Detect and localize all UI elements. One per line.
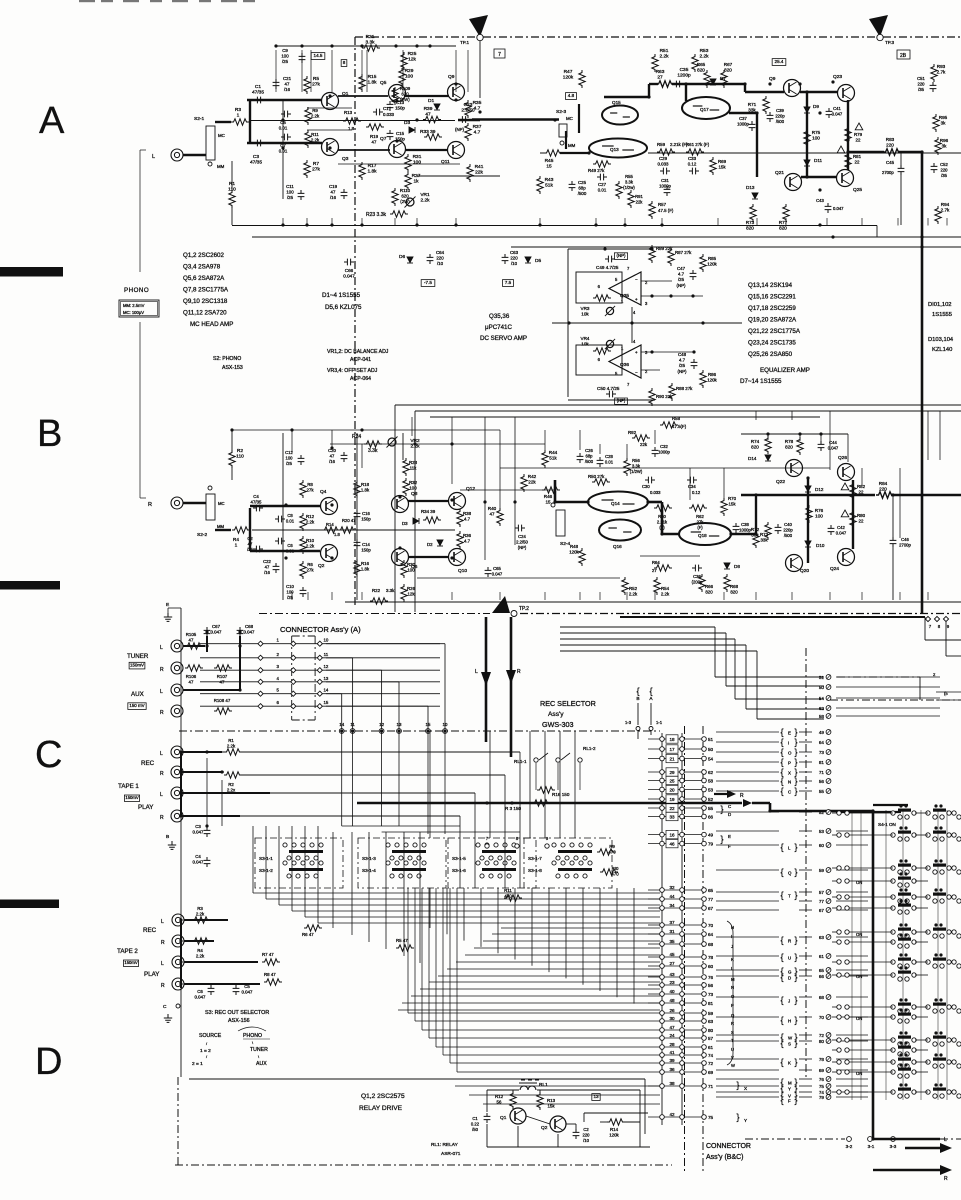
svg-text:KZL140: KZL140 bbox=[932, 347, 952, 353]
resistor R52 2.2k bbox=[622, 577, 628, 595]
resistor R61 27k(F) bbox=[686, 149, 704, 155]
resistor R62 27k bbox=[689, 505, 707, 511]
connector pin row 23/56 bbox=[648, 984, 704, 986]
resistor R76 100 bbox=[806, 505, 812, 523]
svg-text:49: 49 bbox=[819, 730, 825, 735]
svg-text:PHONO: PHONO bbox=[243, 1033, 262, 1039]
svg-text:P: P bbox=[731, 1003, 734, 1008]
jack TUNER L bbox=[171, 640, 183, 652]
capacitor C5 0.01 bbox=[281, 111, 291, 118]
svg-text:55: 55 bbox=[819, 789, 825, 794]
lower dash-dot C border bbox=[179, 730, 660, 732]
svg-text:41: 41 bbox=[669, 1050, 675, 1055]
pins 7 8 9 right bbox=[925, 616, 930, 621]
svg-text:73: 73 bbox=[819, 750, 825, 755]
svg-text:R64: R64 bbox=[652, 560, 660, 565]
svg-text:61: 61 bbox=[708, 1045, 714, 1050]
svg-text:(NP): (NP) bbox=[616, 253, 626, 258]
dual fet Q14 bbox=[588, 492, 648, 513]
svg-text:43: 43 bbox=[669, 972, 675, 977]
svg-text:Y: Y bbox=[744, 1118, 747, 1123]
relay drive nested wires bbox=[455, 1085, 660, 1087]
transistor Q10 bbox=[449, 549, 466, 566]
svg-text:N: N bbox=[731, 985, 734, 990]
long rail A bottom 3 bbox=[511, 246, 961, 248]
capacitor C5C 0.047 bbox=[233, 985, 240, 995]
svg-text:G: G bbox=[788, 970, 792, 975]
warning R79 22 bbox=[855, 123, 863, 130]
transistor Q21 bbox=[785, 174, 802, 191]
svg-text:46: 46 bbox=[669, 841, 675, 846]
transistor Q24 bbox=[838, 549, 855, 566]
ground B mid bbox=[168, 841, 176, 849]
svg-text:}: } bbox=[736, 1080, 739, 1090]
staircase verticals from connector pins bbox=[341, 731, 343, 826]
boxed voltage 14.5 bbox=[311, 53, 325, 60]
svg-text:C: C bbox=[35, 734, 62, 776]
svg-text:67: 67 bbox=[708, 906, 714, 911]
transistor Q6 bbox=[392, 549, 409, 566]
svg-text:69: 69 bbox=[819, 1068, 825, 1073]
B verticals to rails bbox=[291, 592, 293, 600]
svg-text:B: B bbox=[37, 413, 62, 455]
svg-text:13: 13 bbox=[397, 722, 402, 727]
svg-text:X: X bbox=[744, 1086, 747, 1091]
svg-text:75: 75 bbox=[819, 1084, 825, 1089]
wires small box right bbox=[936, 691, 961, 693]
right column R93 2.7k bbox=[931, 64, 937, 82]
wire A mesh horizontals bbox=[307, 107, 352, 109]
resistor R7C 47 bbox=[262, 959, 280, 965]
bold tape1 jack bus bbox=[180, 752, 182, 816]
switch S2-1 bbox=[206, 126, 215, 160]
svg-text:K: K bbox=[731, 957, 734, 962]
svg-text:2700p: 2700p bbox=[882, 170, 894, 175]
svg-text:23: 23 bbox=[669, 980, 675, 985]
junction dots B bbox=[284, 503, 287, 506]
svg-text:R29100: R29100 bbox=[405, 68, 414, 80]
svg-text:R66820: R66820 bbox=[705, 584, 714, 595]
resistor R58 47.5F bbox=[660, 422, 678, 428]
svg-text:60: 60 bbox=[708, 964, 714, 969]
resistor R59 2.21k(F) bbox=[657, 149, 675, 155]
svg-text:14.5: 14.5 bbox=[314, 53, 323, 58]
svg-text:R2612k: R2612k bbox=[407, 586, 416, 597]
bold rail Q21-Q25 bbox=[801, 176, 837, 178]
svg-text:C: C bbox=[163, 1004, 167, 1010]
svg-text:R4222k: R4222k bbox=[528, 474, 537, 485]
connector pin row 40/73 bbox=[648, 993, 704, 995]
svg-text:10: 10 bbox=[323, 638, 328, 643]
transistor Q11 bbox=[448, 142, 465, 159]
svg-text:L: L bbox=[161, 961, 164, 967]
right pin column dash-dot verticals bbox=[805, 648, 807, 1080]
svg-text:Q8: Q8 bbox=[411, 491, 418, 497]
svg-text:58: 58 bbox=[708, 778, 714, 783]
capacitor C12 100/25 bbox=[298, 455, 305, 465]
svg-text:14: 14 bbox=[339, 722, 344, 727]
resistor R14 1.8 bbox=[322, 527, 340, 533]
svg-text:77: 77 bbox=[819, 899, 825, 904]
svg-text:REC: REC bbox=[141, 760, 155, 767]
transistor Q5 bbox=[389, 85, 406, 102]
svg-text:0.12: 0.12 bbox=[692, 490, 701, 495]
svg-text:77: 77 bbox=[708, 897, 714, 902]
svg-text:}: } bbox=[794, 737, 797, 747]
diode D9 bbox=[804, 107, 810, 113]
svg-text:S2-4: S2-4 bbox=[560, 541, 570, 547]
svg-text:15: 15 bbox=[323, 700, 328, 705]
svg-text:Q25: Q25 bbox=[853, 187, 862, 193]
jack PLAY L tape2 bbox=[172, 956, 184, 968]
svg-text:R: R bbox=[788, 939, 791, 944]
svg-text:L: L bbox=[152, 154, 155, 160]
resistor R48 120k bbox=[579, 548, 585, 566]
border C/D bottom dash-dot bbox=[175, 1164, 672, 1166]
svg-text:Q19,20 2SA872A: Q19,20 2SA872A bbox=[748, 317, 797, 324]
connector pin row 31/64 bbox=[648, 933, 704, 935]
svg-text:R83220: R83220 bbox=[886, 137, 895, 148]
bundle horizontals lower rows bbox=[408, 1012, 648, 1014]
diode D5 bbox=[525, 257, 531, 263]
section B frame line 2 bbox=[415, 410, 961, 412]
svg-text:52: 52 bbox=[708, 797, 714, 802]
transistor Q19 bbox=[784, 80, 801, 97]
svg-text:L: L bbox=[475, 669, 478, 675]
capacitor C35 1200p bbox=[673, 81, 683, 88]
svg-text:VR3,4: OFF-SET ADJ: VR3,4: OFF-SET ADJ bbox=[327, 368, 378, 374]
svg-text:Q7: Q7 bbox=[380, 136, 387, 142]
test point TP.1 bbox=[469, 15, 488, 37]
svg-text:150 mV: 150 mV bbox=[129, 703, 144, 708]
bold tuner aux bus bbox=[183, 645, 205, 647]
resistor R28 11k bbox=[403, 458, 409, 476]
svg-text:R49 27k: R49 27k bbox=[588, 168, 605, 173]
resistor R106 47 bbox=[185, 665, 203, 671]
svg-text:51: 51 bbox=[819, 675, 825, 680]
diode D3b bbox=[413, 518, 419, 524]
dual transistor Q16 bbox=[599, 520, 641, 541]
resistor R69 15k bbox=[710, 157, 716, 175]
svg-text:ACP-064: ACP-064 bbox=[350, 376, 371, 382]
resistor R14 120k bbox=[607, 1119, 625, 1125]
svg-text:S2-3: S2-3 bbox=[556, 109, 566, 115]
svg-text:21: 21 bbox=[669, 756, 675, 761]
svg-text:R30100: R30100 bbox=[407, 562, 416, 573]
svg-text:73: 73 bbox=[708, 992, 714, 997]
resistor R8 27k bbox=[300, 480, 306, 498]
svg-text:}: } bbox=[794, 842, 797, 852]
svg-text:R33 39: R33 39 bbox=[420, 129, 436, 135]
svg-text:36: 36 bbox=[669, 1067, 675, 1072]
svg-text:{: { bbox=[780, 1095, 783, 1105]
svg-text:D8: D8 bbox=[734, 564, 740, 569]
resistor R64 27 bbox=[654, 565, 672, 571]
svg-text:62: 62 bbox=[819, 706, 825, 711]
resistor R92 22k bbox=[632, 435, 650, 441]
resistor R49 27k bbox=[593, 161, 611, 167]
svg-text:PLAY: PLAY bbox=[144, 971, 159, 978]
svg-text:52: 52 bbox=[819, 810, 825, 815]
svg-text:PHONO: PHONO bbox=[124, 287, 149, 294]
resistor R18 1.8k bbox=[354, 480, 360, 498]
resistor R67 820 bbox=[721, 70, 727, 88]
resistor R3 1 bbox=[215, 121, 231, 123]
svg-text:3-1: 3-1 bbox=[868, 1144, 875, 1149]
wire S2-3 to Q13 bbox=[565, 131, 567, 149]
resistor R11C 470 bbox=[504, 895, 522, 901]
svg-text:MM: MM bbox=[217, 524, 224, 529]
transistor Q9 bbox=[448, 84, 465, 101]
section B frame line 3 bbox=[430, 416, 820, 418]
svg-text:M: M bbox=[788, 1081, 792, 1086]
svg-text:+: + bbox=[635, 350, 638, 355]
warning R82 22 bbox=[841, 483, 849, 490]
bottom right arrows L R bbox=[905, 1147, 940, 1149]
resistor R57 47.5 bbox=[649, 201, 655, 219]
connector pin row 30/63 bbox=[648, 1020, 704, 1022]
capacitor C47 4.7/25 NP bbox=[690, 270, 697, 280]
boxed voltage -7.5 bbox=[421, 280, 435, 287]
connector pin row 29/62 bbox=[648, 771, 704, 773]
connector A pins bbox=[200, 643, 440, 645]
svg-text:TUNER: TUNER bbox=[127, 653, 149, 660]
jack REC R tape1 bbox=[171, 766, 183, 778]
svg-text:R161.8k: R161.8k bbox=[361, 561, 370, 572]
svg-text:Q17: Q17 bbox=[700, 107, 709, 112]
svg-text:60: 60 bbox=[819, 843, 825, 848]
resistor R16 150 bbox=[537, 787, 555, 793]
svg-text:Q9: Q9 bbox=[448, 74, 455, 80]
svg-text:1.8: 1.8 bbox=[334, 532, 340, 537]
resistor R5 27k bbox=[304, 76, 310, 94]
left margin divider bar 2 bbox=[0, 581, 60, 590]
bold wires B path bbox=[555, 501, 588, 504]
svg-text:E: E bbox=[728, 834, 731, 839]
svg-text:S3-1-6: S3-1-6 bbox=[452, 868, 466, 873]
svg-text:C45: C45 bbox=[886, 160, 895, 165]
servo vr3 box bbox=[576, 272, 622, 303]
capacitor C28 0.01 bbox=[597, 457, 604, 467]
svg-text:DC SERVO AMP: DC SERVO AMP bbox=[480, 335, 527, 342]
svg-text:R: R bbox=[160, 771, 164, 777]
resistor R40 47 bbox=[497, 508, 503, 526]
svg-text:B: B bbox=[166, 834, 169, 840]
border C/D left line with jacks bbox=[180, 608, 182, 1077]
svg-text:R171.8k: R171.8k bbox=[367, 163, 377, 175]
svg-text:MC HEAD AMP: MC HEAD AMP bbox=[190, 321, 233, 328]
warning R81 22 bbox=[837, 146, 845, 153]
capacitor C20 47/16 bbox=[341, 452, 348, 462]
capacitor C49 4.7/25 NP bbox=[614, 253, 627, 260]
connector pin row 19/52 bbox=[648, 798, 704, 800]
capacitor C29 0.033 bbox=[660, 168, 670, 175]
resistor R2 110 bbox=[229, 450, 235, 468]
svg-text:35: 35 bbox=[669, 939, 675, 944]
capacitor C6 0.01 bbox=[275, 538, 285, 545]
resistor R32 100 bbox=[403, 478, 409, 496]
B mesh verticals bbox=[291, 430, 293, 452]
switch S2-4 bbox=[556, 510, 565, 536]
svg-text:64: 64 bbox=[819, 740, 825, 745]
svg-text:17: 17 bbox=[669, 747, 675, 752]
servo junction dots bbox=[603, 247, 606, 250]
svg-text:Q15,16 2SC2291: Q15,16 2SC2291 bbox=[748, 294, 796, 301]
connector pin row 32/65 bbox=[648, 889, 704, 891]
bold vertical D9 R75 D11 bbox=[806, 92, 808, 177]
transistor Q8 bbox=[392, 496, 409, 513]
svg-text:80: 80 bbox=[708, 1028, 714, 1033]
svg-text:R522.2k: R522.2k bbox=[629, 586, 638, 597]
svg-text:{: { bbox=[780, 867, 783, 877]
svg-text:{: { bbox=[780, 842, 783, 852]
border A/B block bottom dash-dot bbox=[520, 613, 961, 615]
transistor Q23 bbox=[838, 85, 855, 102]
diode D8 bbox=[724, 563, 730, 569]
resistor R55 3.3k bbox=[616, 181, 622, 199]
bold B output rail bbox=[741, 494, 875, 497]
svg-text:69: 69 bbox=[708, 1070, 714, 1075]
svg-text:Q14: Q14 bbox=[611, 501, 620, 506]
long rail A bottom 1 bbox=[232, 225, 877, 227]
border C block top dash-dot bbox=[259, 613, 490, 615]
svg-text:S3-1-8: S3-1-8 bbox=[528, 868, 542, 873]
svg-text:D12: D12 bbox=[815, 487, 824, 492]
resistor R9 2.2k bbox=[305, 107, 311, 125]
resistor R8C 47 bbox=[264, 979, 282, 985]
svg-text:}: } bbox=[794, 867, 797, 877]
border A/B block left dash-dot bbox=[354, 37, 356, 607]
svg-text:71: 71 bbox=[708, 1084, 714, 1089]
jack PLAY R tape1 bbox=[171, 810, 183, 822]
bold output vertical x922 bbox=[921, 152, 924, 613]
svg-text:R85120k: R85120k bbox=[707, 256, 717, 267]
transistor Q20 bbox=[786, 555, 803, 572]
resistor R6C 47 bbox=[304, 925, 322, 931]
capacitor C67 0.047 bbox=[204, 627, 211, 637]
ground C bottom bbox=[164, 1014, 172, 1022]
resistor R63 27 bbox=[656, 81, 674, 87]
svg-text:30: 30 bbox=[669, 1016, 675, 1021]
svg-text:R151.8k: R151.8k bbox=[367, 74, 377, 86]
svg-text:R67820: R67820 bbox=[724, 62, 733, 73]
svg-text:Q23,24 2SC1735: Q23,24 2SC1735 bbox=[748, 340, 796, 347]
svg-text:}: } bbox=[794, 747, 797, 757]
capacitor C4 47/35 bbox=[253, 505, 263, 512]
svg-text:C2668p/500: C2668p/500 bbox=[585, 448, 594, 464]
svg-text:R6915k: R6915k bbox=[718, 159, 727, 170]
svg-text:C16150p: C16150p bbox=[361, 511, 371, 522]
svg-text:μPC741C: μPC741C bbox=[485, 324, 512, 331]
svg-text:56: 56 bbox=[708, 983, 714, 988]
resistor R73 820 bbox=[750, 204, 756, 222]
capacitor C24 2.2/50 bbox=[515, 525, 525, 532]
svg-text:44: 44 bbox=[669, 894, 675, 899]
connector pin row 22/55 bbox=[648, 807, 704, 809]
svg-text:ON: ON bbox=[856, 932, 862, 937]
svg-text:R: R bbox=[160, 710, 164, 716]
svg-text:{: { bbox=[780, 776, 783, 786]
svg-text:R213.3k: R213.3k bbox=[365, 34, 375, 46]
svg-text:66: 66 bbox=[708, 814, 714, 819]
A verticals to rails bbox=[282, 218, 284, 226]
bold vertical Q26-Q24 bbox=[852, 480, 854, 549]
right corner lines to edge bbox=[924, 617, 926, 640]
capacitor C31 1000p bbox=[664, 186, 671, 196]
svg-text:R: R bbox=[740, 793, 744, 799]
svg-text:150mV: 150mV bbox=[124, 960, 137, 965]
svg-text:C34: C34 bbox=[688, 484, 696, 489]
dual fet Q13 bbox=[589, 139, 647, 158]
svg-text:R2110: R2110 bbox=[236, 448, 244, 460]
resistor R68 820 bbox=[724, 574, 730, 592]
svg-text:70: 70 bbox=[708, 923, 714, 928]
test point TP.3 bbox=[869, 15, 888, 37]
wires tape1 drops bbox=[519, 752, 521, 888]
svg-text:32: 32 bbox=[669, 885, 675, 890]
svg-text:150mV: 150mV bbox=[130, 663, 144, 668]
svg-text:48: 48 bbox=[669, 998, 675, 1003]
svg-text:R: R bbox=[161, 940, 165, 946]
resistor R90 22k bbox=[649, 388, 655, 406]
svg-text:}: } bbox=[794, 757, 797, 767]
resistor R23 3.3k bbox=[390, 211, 408, 217]
wire bold Q8 to Q12 bbox=[408, 500, 448, 502]
capacitor C10 100/25 bbox=[300, 587, 307, 597]
svg-text:{: { bbox=[780, 1038, 783, 1048]
svg-text:VR12.2k: VR12.2k bbox=[420, 192, 430, 204]
wire op-amp supply bbox=[631, 307, 633, 343]
bundle verticals left staircase bbox=[252, 826, 254, 893]
svg-text:GWS-303: GWS-303 bbox=[542, 720, 574, 729]
svg-text:ACP-041: ACP-041 bbox=[350, 357, 371, 363]
resistor R39 47 bbox=[423, 116, 441, 122]
svg-text:B: B bbox=[636, 696, 639, 702]
svg-text:3-2: 3-2 bbox=[846, 1144, 853, 1149]
svg-text:8: 8 bbox=[343, 60, 346, 65]
svg-text:R13: R13 bbox=[344, 110, 353, 115]
resistor R10 2.2k bbox=[300, 536, 306, 554]
svg-text:{: { bbox=[780, 757, 783, 767]
svg-text:R76100: R76100 bbox=[815, 508, 824, 519]
connector pin row 42/75 bbox=[648, 1116, 704, 1118]
svg-text:R112.2k: R112.2k bbox=[311, 132, 320, 143]
svg-text:Q21,22 2SC1775A: Q21,22 2SC1775A bbox=[748, 328, 801, 335]
svg-text:}: } bbox=[794, 1057, 797, 1067]
relay wires bbox=[487, 1089, 519, 1091]
transistor Q1 bbox=[322, 93, 339, 110]
resistor R37 4.7 bbox=[465, 123, 471, 141]
svg-text:50: 50 bbox=[819, 685, 825, 690]
svg-text:}: } bbox=[794, 952, 797, 962]
switch S2-3 bbox=[559, 124, 567, 137]
svg-text:Q22: Q22 bbox=[776, 479, 785, 485]
wire center node B bbox=[252, 529, 455, 531]
svg-text:Q3,4 2SA978: Q3,4 2SA978 bbox=[183, 264, 221, 271]
svg-text:S: S bbox=[788, 1042, 791, 1047]
connector B&C dash-dot verticals bbox=[684, 726, 686, 1172]
resistor R27 1k bbox=[405, 172, 411, 190]
svg-text:AUX: AUX bbox=[256, 1061, 267, 1067]
capacitor C32 1000p bbox=[652, 447, 659, 457]
svg-text:63: 63 bbox=[708, 1019, 714, 1024]
svg-text:D3: D3 bbox=[404, 120, 410, 126]
junction dots A bbox=[300, 44, 303, 47]
capacitor C43 0.047 bbox=[825, 203, 832, 213]
svg-text:12: 12 bbox=[323, 664, 328, 669]
servo vr4 box bbox=[576, 345, 622, 375]
svg-text:56: 56 bbox=[819, 779, 825, 784]
